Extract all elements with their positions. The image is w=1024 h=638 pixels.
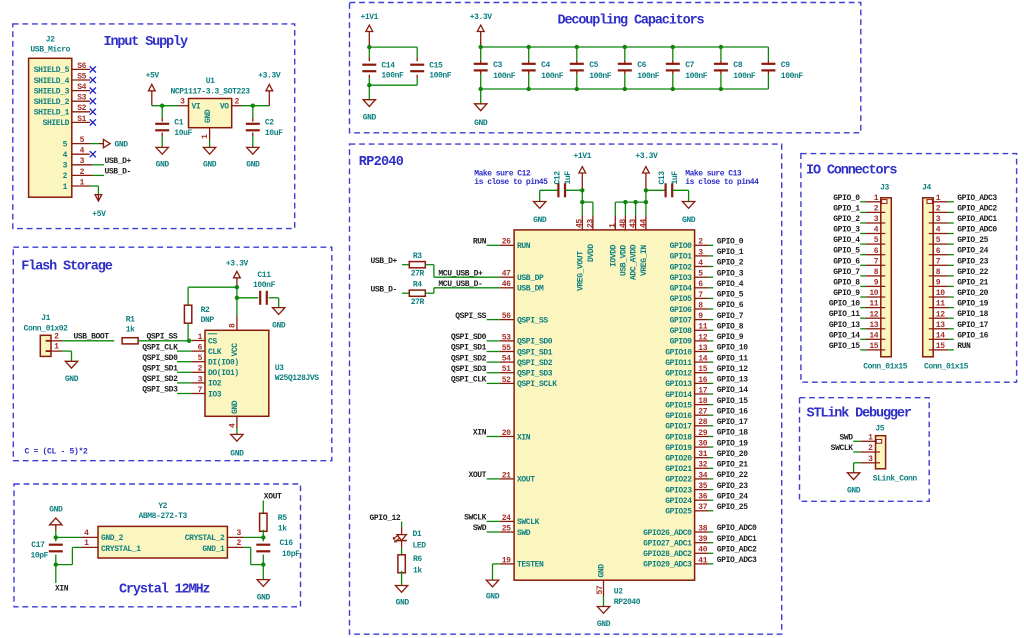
svg-text:100nF: 100nF bbox=[541, 72, 564, 81]
svg-text:3: 3 bbox=[198, 375, 203, 384]
svg-text:100nF: 100nF bbox=[685, 72, 708, 81]
svg-text:3: 3 bbox=[936, 215, 941, 224]
pin 53 QSPI_SD0 of U2 bbox=[500, 333, 553, 346]
svg-text:GPIO_ADC1: GPIO_ADC1 bbox=[957, 215, 997, 224]
wire J2 pin5 to GND bbox=[90, 143, 99, 145]
svg-text:GPIO_ADC0: GPIO_ADC0 bbox=[957, 226, 997, 235]
svg-text:+1V1: +1V1 bbox=[573, 152, 591, 161]
sheet box Decoupling Capacitors bbox=[350, 3, 861, 133]
junction on decoupling top bus bbox=[527, 45, 531, 49]
pin 1 of U1 to GND bbox=[201, 128, 210, 148]
svg-text:QSPI_SD3: QSPI_SD3 bbox=[142, 386, 178, 395]
svg-text:Decoupling Capacitors: Decoupling Capacitors bbox=[558, 14, 705, 29]
wire with net label RUN bbox=[473, 238, 500, 247]
power symbol GND above C17 bbox=[49, 506, 63, 531]
svg-text:GPIO_2: GPIO_2 bbox=[717, 259, 744, 268]
svg-text:GPIO_4: GPIO_4 bbox=[717, 280, 744, 289]
svg-text:55: 55 bbox=[502, 344, 511, 353]
svg-text:USB_DM: USB_DM bbox=[517, 285, 544, 294]
pin 27 GPIO16 of U2 with net label GPIO_16 bbox=[665, 407, 748, 421]
junction on decoupling top bus bbox=[719, 45, 723, 49]
wire TESTEN to GND bbox=[493, 564, 500, 580]
pin 57 GND of U2 bbox=[596, 564, 607, 607]
pin 1 CS of U3 bbox=[192, 333, 218, 346]
svg-text:XOUT: XOUT bbox=[468, 471, 486, 480]
junction on decoupling top bus bbox=[479, 45, 483, 49]
pin 48 USB_VDD of U2 bbox=[619, 215, 629, 276]
svg-text:RUN: RUN bbox=[473, 238, 487, 247]
svg-text:56: 56 bbox=[502, 312, 511, 321]
wire R3 to USB_DP with net label MCU_USB_D+ bbox=[425, 265, 500, 279]
connector J2 USB_Micro body bbox=[29, 58, 72, 197]
wire down to XIN label bbox=[55, 565, 57, 583]
svg-text:8: 8 bbox=[936, 268, 941, 277]
svg-text:J4: J4 bbox=[922, 183, 931, 192]
capacitor C2 bbox=[246, 106, 283, 148]
svg-text:GPIO_12: GPIO_12 bbox=[717, 365, 748, 374]
svg-text:23: 23 bbox=[586, 219, 595, 228]
svg-text:24: 24 bbox=[502, 514, 511, 523]
svg-text:48: 48 bbox=[619, 219, 628, 228]
pin 3 of J5 to GND bbox=[861, 455, 876, 464]
svg-text:S2: S2 bbox=[77, 104, 86, 113]
svg-text:5: 5 bbox=[874, 236, 879, 245]
svg-text:GPIO26_ADC0: GPIO26_ADC0 bbox=[643, 529, 692, 538]
junction at ADC_AVDD branch bbox=[633, 200, 637, 204]
svg-text:SHIELD_4: SHIELD_4 bbox=[34, 77, 70, 86]
pin 16 GPIO13 of U2 with net label GPIO_13 bbox=[665, 376, 748, 390]
pin 2 GPIO0 of U2 with net label GPIO_0 bbox=[670, 238, 744, 252]
pin 7 of J3 with net label GPIO_6 bbox=[833, 257, 885, 266]
svg-text:GPIO10: GPIO10 bbox=[665, 348, 692, 357]
svg-text:9: 9 bbox=[874, 279, 879, 288]
svg-text:GPIO6: GPIO6 bbox=[670, 306, 693, 315]
svg-text:GPIO_0: GPIO_0 bbox=[833, 194, 860, 203]
junction on decoupling top bus bbox=[623, 45, 627, 49]
svg-text:C7: C7 bbox=[685, 61, 694, 70]
svg-text:C6: C6 bbox=[637, 61, 646, 70]
svg-text:4: 4 bbox=[80, 147, 85, 156]
junction at C1 top bbox=[160, 104, 164, 108]
pin 14 GPIO11 of U2 with net label GPIO_11 bbox=[665, 354, 748, 368]
pin 1 of J4 with net label GPIO_ADC3 bbox=[933, 194, 997, 203]
svg-text:35: 35 bbox=[698, 482, 707, 491]
svg-text:GPIO_25: GPIO_25 bbox=[957, 236, 988, 245]
title Decoupling Capacitors bbox=[558, 14, 705, 29]
svg-text:GPIO16: GPIO16 bbox=[665, 412, 692, 421]
sheet box STLink Debugger bbox=[800, 398, 930, 502]
wire CRYSTAL_2 to C16 top bbox=[244, 536, 264, 538]
svg-text:J3: J3 bbox=[880, 183, 889, 192]
pin 4 of J3 with net label GPIO_3 bbox=[833, 226, 885, 235]
pin 12 of J3 with net label GPIO_11 bbox=[829, 310, 885, 319]
svg-text:100nF: 100nF bbox=[253, 281, 276, 290]
svg-text:USB_D-: USB_D- bbox=[371, 286, 397, 295]
wire with net label QSPI_SD3 bbox=[451, 365, 500, 374]
svg-text:U2: U2 bbox=[614, 587, 623, 596]
svg-text:GPIO2: GPIO2 bbox=[670, 263, 693, 272]
pin 7 IO3 of U3 bbox=[192, 386, 222, 399]
svg-text:GPIO_25: GPIO_25 bbox=[717, 503, 748, 512]
no-connect X on J2 pin S5 bbox=[90, 77, 96, 83]
svg-text:1: 1 bbox=[936, 194, 941, 203]
junction C12 at +1V1 bbox=[580, 188, 584, 192]
capacitor C1 bbox=[155, 106, 192, 148]
resistor R1 1k bbox=[122, 315, 138, 344]
svg-text:GPIO_15: GPIO_15 bbox=[717, 397, 748, 406]
svg-text:4: 4 bbox=[84, 529, 89, 538]
svg-text:W25Q128JVS: W25Q128JVS bbox=[275, 374, 320, 383]
svg-text:C15: C15 bbox=[429, 61, 443, 70]
svg-text:GPIO_24: GPIO_24 bbox=[957, 247, 988, 256]
svg-text:+5V: +5V bbox=[146, 72, 160, 81]
svg-text:DNP: DNP bbox=[201, 316, 215, 325]
wire R5 to CRYSTAL_2 junction bbox=[262, 530, 264, 538]
svg-text:57: 57 bbox=[596, 585, 605, 594]
capacitor C16 10pF bbox=[256, 537, 300, 564]
pin S4 SHIELD_3 of J2 bbox=[34, 83, 90, 96]
pin 10 of J3 with net label GPIO_9 bbox=[833, 289, 885, 298]
svg-text:GND: GND bbox=[598, 564, 607, 578]
svg-text:QSPI_SD0: QSPI_SD0 bbox=[517, 338, 553, 347]
svg-text:QSPI_SS: QSPI_SS bbox=[455, 312, 486, 321]
svg-text:CRYSTAL_2: CRYSTAL_2 bbox=[185, 534, 225, 543]
svg-text:15: 15 bbox=[869, 342, 878, 351]
label J2 value USB_Micro bbox=[30, 46, 70, 55]
pin 15 of J3 with net label GPIO_15 bbox=[829, 342, 885, 351]
svg-text:1: 1 bbox=[84, 539, 89, 548]
power symbol GND below J5 bbox=[847, 473, 861, 496]
svg-text:QSPI_CLK: QSPI_CLK bbox=[451, 376, 487, 385]
svg-text:1: 1 bbox=[54, 343, 59, 352]
pin 2 of J3 with net label GPIO_1 bbox=[833, 204, 885, 213]
svg-text:GPIO_17: GPIO_17 bbox=[717, 418, 748, 427]
pin 4 GND_2 of Y2 bbox=[82, 529, 99, 538]
svg-text:GPIO12: GPIO12 bbox=[665, 370, 692, 379]
svg-text:8: 8 bbox=[228, 323, 237, 328]
svg-text:C = (CL - 5)*2: C = (CL - 5)*2 bbox=[25, 447, 89, 456]
power symbol GND below U1 bbox=[203, 147, 217, 169]
svg-text:GND: GND bbox=[115, 140, 129, 149]
svg-text:11: 11 bbox=[936, 300, 945, 309]
wire to capacitor C11 bbox=[237, 297, 258, 299]
pin 15 GPIO12 of U2 with net label GPIO_12 bbox=[665, 365, 748, 379]
svg-text:39: 39 bbox=[698, 535, 707, 544]
pin 20 XIN of U2 bbox=[500, 429, 531, 442]
svg-text:25: 25 bbox=[502, 524, 511, 533]
svg-text:GND: GND bbox=[257, 594, 271, 603]
capacitor C17 10pF bbox=[30, 537, 62, 564]
svg-text:GPIO_21: GPIO_21 bbox=[957, 278, 988, 287]
pin 47 USB_DP of U2 bbox=[500, 270, 544, 283]
svg-text:1: 1 bbox=[874, 194, 879, 203]
wire J5 pin3 to GND bbox=[854, 463, 861, 473]
pin 15 of J4 with net label RUN bbox=[929, 342, 971, 351]
svg-text:21: 21 bbox=[502, 471, 511, 480]
svg-text:16: 16 bbox=[698, 376, 707, 385]
resistor R2 DNP pullup bbox=[184, 287, 214, 341]
svg-text:+5V: +5V bbox=[92, 210, 106, 219]
power symbol +1V1 above U2 bbox=[573, 152, 591, 190]
svg-text:6: 6 bbox=[198, 344, 203, 353]
pin 5 DI(IO0) of U3 bbox=[192, 354, 239, 367]
pin 34 GPIO22 of U2 with net label GPIO_22 bbox=[665, 471, 748, 485]
svg-text:GPIO_ADC1: GPIO_ADC1 bbox=[717, 535, 757, 544]
svg-text:D1: D1 bbox=[413, 530, 422, 539]
wire J2 pin1 to +5V bbox=[90, 186, 98, 195]
svg-text:USB_DP: USB_DP bbox=[517, 274, 544, 283]
svg-text:GPIO_6: GPIO_6 bbox=[717, 301, 744, 310]
svg-text:TESTEN: TESTEN bbox=[517, 561, 544, 570]
svg-text:GPIO21: GPIO21 bbox=[665, 465, 692, 474]
svg-text:GPIO28_ADC2: GPIO28_ADC2 bbox=[643, 550, 692, 559]
svg-text:1: 1 bbox=[868, 433, 873, 442]
wire C16 bottom to GND bbox=[262, 565, 264, 580]
svg-text:SWCLK: SWCLK bbox=[831, 444, 854, 453]
svg-text:C11: C11 bbox=[257, 271, 271, 280]
svg-text:CRYSTAL_1: CRYSTAL_1 bbox=[101, 545, 141, 554]
svg-text:GPIO9: GPIO9 bbox=[670, 338, 693, 347]
svg-text:GPIO29_ADC3: GPIO29_ADC3 bbox=[643, 561, 692, 570]
power symbol GND below C1 bbox=[156, 147, 170, 169]
svg-text:GPIO_2: GPIO_2 bbox=[833, 215, 860, 224]
svg-text:4: 4 bbox=[936, 226, 941, 235]
pin 37 GPIO25 of U2 with net label GPIO_25 bbox=[665, 503, 748, 517]
svg-text:GPIO_9: GPIO_9 bbox=[833, 289, 860, 298]
svg-text:GND: GND bbox=[486, 593, 500, 602]
pin 46 USB_DM of U2 bbox=[500, 280, 544, 293]
svg-text:1k: 1k bbox=[413, 566, 422, 575]
pin 17 GPIO14 of U2 with net label GPIO_14 bbox=[665, 386, 748, 400]
power symbol GND below U2 bbox=[597, 607, 611, 630]
MCU U2 RP2040 body bbox=[514, 230, 695, 607]
wire D1 to R6 bbox=[401, 541, 403, 557]
svg-text:XOUT: XOUT bbox=[517, 476, 535, 485]
svg-text:17: 17 bbox=[698, 386, 707, 395]
svg-text:C12: C12 bbox=[553, 171, 562, 185]
wire U1 VO to +3.3V bbox=[242, 105, 270, 107]
svg-text:VREG_IN: VREG_IN bbox=[640, 245, 649, 276]
svg-text:GPIO_5: GPIO_5 bbox=[717, 291, 744, 300]
pin 7 of J4 with net label GPIO_23 bbox=[929, 257, 989, 266]
net label XIN bbox=[55, 585, 69, 594]
junction at C17 bottom bbox=[54, 562, 58, 566]
svg-text:1k: 1k bbox=[278, 525, 287, 534]
svg-text:R5: R5 bbox=[278, 514, 287, 523]
svg-text:GPIO18: GPIO18 bbox=[665, 433, 692, 442]
wire GND to Y2 GND_2 junction bbox=[55, 531, 57, 538]
svg-text:1: 1 bbox=[80, 178, 85, 187]
svg-text:GPIO_0: GPIO_0 bbox=[717, 238, 744, 247]
svg-text:53: 53 bbox=[502, 333, 511, 342]
resistor R6 1k bbox=[398, 555, 423, 576]
no-connect X on J2 pin S4 bbox=[90, 88, 96, 94]
pin 31 GPIO20 of U2 with net label GPIO_20 bbox=[665, 450, 748, 464]
svg-text:8: 8 bbox=[698, 301, 703, 310]
power symbol GND right of C11 bbox=[272, 308, 286, 331]
svg-text:19: 19 bbox=[502, 556, 511, 565]
svg-text:9: 9 bbox=[936, 279, 941, 288]
sheet box RP2040 bbox=[350, 144, 782, 634]
svg-text:XIN: XIN bbox=[55, 585, 69, 594]
wire with net label QSPI_SD3 bbox=[142, 386, 191, 395]
svg-text:R4: R4 bbox=[413, 281, 422, 290]
svg-text:27R: 27R bbox=[411, 269, 425, 278]
svg-text:6: 6 bbox=[936, 247, 941, 256]
wire and net label USB_D- at J2 pin2 bbox=[92, 168, 131, 177]
no-connect X on J2 pin S3 bbox=[90, 98, 96, 104]
svg-text:GPIO_10: GPIO_10 bbox=[829, 300, 860, 309]
svg-text:RUN: RUN bbox=[517, 242, 531, 251]
svg-text:SWD: SWD bbox=[839, 433, 853, 442]
pin 44 VREG_IN of U2 bbox=[639, 215, 649, 276]
power symbol GND below C3 bbox=[474, 104, 488, 128]
svg-text:14: 14 bbox=[869, 331, 878, 340]
svg-text:GPIO_24: GPIO_24 bbox=[717, 492, 748, 501]
pin 30 GPIO19 of U2 with net label GPIO_19 bbox=[665, 439, 748, 453]
svg-text:GPIO23: GPIO23 bbox=[665, 486, 692, 495]
svg-text:QSPI_SD3: QSPI_SD3 bbox=[517, 370, 553, 379]
svg-text:SHIELD_3: SHIELD_3 bbox=[34, 87, 70, 96]
svg-text:GPIO_13: GPIO_13 bbox=[829, 321, 860, 330]
svg-text:CLK: CLK bbox=[208, 348, 222, 357]
pin 43 ADC_AVDD of U2 bbox=[629, 215, 639, 280]
svg-text:CS: CS bbox=[208, 337, 217, 346]
svg-text:DVDD: DVDD bbox=[587, 244, 596, 262]
junction C13 at +3.3V bbox=[644, 188, 648, 192]
svg-text:QSPI_SD0: QSPI_SD0 bbox=[451, 333, 487, 342]
pin 3 of J2 bbox=[63, 157, 93, 170]
svg-text:GPIO_11: GPIO_11 bbox=[717, 354, 748, 363]
wire with net label SWCLK bbox=[464, 514, 500, 523]
capacitor C9 100nF bbox=[761, 47, 803, 89]
pin 36 GPIO24 of U2 with net label GPIO_24 bbox=[665, 492, 748, 506]
svg-text:GPIO_16: GPIO_16 bbox=[717, 407, 748, 416]
junction on decoupling bottom bus bbox=[671, 87, 675, 91]
svg-text:GPIO27_ADC1: GPIO27_ADC1 bbox=[643, 540, 692, 549]
svg-text:4: 4 bbox=[874, 226, 879, 235]
power symbol GND below R6 bbox=[395, 586, 409, 608]
pin 51 QSPI_SD3 of U2 bbox=[500, 365, 553, 378]
power symbol GND at TESTEN bbox=[486, 580, 500, 601]
svg-text:46: 46 bbox=[502, 280, 511, 289]
svg-text:10pF: 10pF bbox=[282, 550, 300, 559]
svg-text:GPIO_13: GPIO_13 bbox=[717, 376, 748, 385]
sheet box IO Connectors bbox=[801, 154, 1017, 383]
svg-text:GPIO7: GPIO7 bbox=[670, 316, 693, 325]
svg-text:GND: GND bbox=[597, 620, 611, 629]
svg-text:MCU_USB_D+: MCU_USB_D+ bbox=[438, 269, 483, 278]
pin 7 GPIO5 of U2 with net label GPIO_5 bbox=[670, 291, 744, 305]
svg-text:100nF: 100nF bbox=[589, 72, 612, 81]
svg-text:29: 29 bbox=[698, 429, 707, 438]
junction at R2 top wire bbox=[235, 285, 239, 289]
svg-text:10: 10 bbox=[936, 289, 945, 298]
pin 2 of J1 bbox=[51, 332, 62, 341]
LED D1 bbox=[393, 530, 427, 551]
svg-text:QSPI_SD2: QSPI_SD2 bbox=[517, 359, 553, 368]
svg-text:USB_BOOT: USB_BOOT bbox=[74, 333, 110, 342]
net label USB_D- wire to R4 bbox=[371, 286, 410, 295]
flash U3 W25Q128JVS body bbox=[205, 330, 319, 416]
power symbol +3.3V at U1 output bbox=[258, 72, 281, 106]
connector J3 Conn_01x15 body bbox=[863, 183, 908, 371]
svg-text:GPIO_8: GPIO_8 bbox=[833, 278, 860, 287]
svg-text:6: 6 bbox=[874, 247, 879, 256]
pin 1 of J5 with net label SWD bbox=[839, 433, 875, 442]
svg-text:GND: GND bbox=[231, 400, 240, 414]
crystal Y2 ABM8-272-T3 body bbox=[98, 502, 227, 558]
svg-text:GPIO13: GPIO13 bbox=[665, 380, 692, 389]
wire and net label USB_D+ at J2 pin3 bbox=[92, 157, 131, 166]
no-connect X on J2 pin S1 bbox=[90, 119, 96, 125]
pin 3 CRYSTAL_2 of Y2 bbox=[227, 529, 243, 538]
svg-text:GPIO_ADC3: GPIO_ADC3 bbox=[717, 556, 757, 565]
svg-text:IO Connectors: IO Connectors bbox=[806, 164, 897, 179]
capacitor C11 100nF bbox=[253, 271, 279, 308]
no-connect X on J2 pin S6 bbox=[90, 66, 96, 72]
svg-text:44: 44 bbox=[639, 219, 648, 228]
svg-text:37: 37 bbox=[698, 503, 707, 512]
pin 5 GPIO3 of U2 with net label GPIO_3 bbox=[670, 269, 744, 283]
power symbol GND right of C13 bbox=[682, 190, 696, 225]
svg-text:GPIO_14: GPIO_14 bbox=[829, 331, 860, 340]
pin 6 of J4 with net label GPIO_24 bbox=[929, 247, 989, 256]
wire C14 bottom to GND bbox=[368, 85, 370, 100]
power symbol +3.3V above U3 bbox=[226, 260, 249, 288]
svg-text:GPIO_11: GPIO_11 bbox=[829, 310, 860, 319]
svg-text:GPIO_20: GPIO_20 bbox=[717, 450, 748, 459]
pin 12 of J4 with net label GPIO_18 bbox=[929, 310, 989, 319]
svg-text:31: 31 bbox=[698, 450, 707, 459]
svg-text:GND: GND bbox=[246, 160, 260, 169]
svg-text:C14: C14 bbox=[381, 61, 395, 70]
svg-text:2: 2 bbox=[698, 238, 703, 247]
svg-text:GPIO_19: GPIO_19 bbox=[957, 300, 988, 309]
svg-text:C16: C16 bbox=[280, 539, 294, 548]
power symbol GND below U3 bbox=[230, 434, 244, 458]
svg-text:STLink Debugger: STLink Debugger bbox=[807, 407, 912, 422]
pin 4 GND of U3 bbox=[228, 400, 240, 434]
pin 4 of J4 with net label GPIO_ADC0 bbox=[929, 226, 998, 235]
svg-text:1: 1 bbox=[609, 223, 618, 228]
svg-text:51: 51 bbox=[502, 365, 511, 374]
svg-text:GPIO_8: GPIO_8 bbox=[717, 323, 744, 332]
pin 2 DO(IO1) of U3 bbox=[192, 365, 239, 378]
svg-text:QSPI_SD2: QSPI_SD2 bbox=[142, 375, 178, 384]
junction at C2 top bbox=[251, 104, 255, 108]
svg-text:QSPI_SS: QSPI_SS bbox=[517, 316, 548, 325]
svg-text:GPIO_ADC3: GPIO_ADC3 bbox=[957, 194, 997, 203]
junction at USB_VDD branch bbox=[623, 200, 627, 204]
svg-text:4: 4 bbox=[63, 151, 68, 160]
wire with net label XIN bbox=[473, 429, 500, 438]
svg-text:GPIO_3: GPIO_3 bbox=[833, 226, 860, 235]
wire with net label QSPI_SD1 bbox=[451, 344, 500, 353]
svg-text:VI: VI bbox=[192, 103, 201, 112]
svg-text:GPIO_ADC0: GPIO_ADC0 bbox=[717, 524, 757, 533]
net label GPIO_12 bbox=[370, 514, 401, 523]
svg-text:C13: C13 bbox=[658, 171, 667, 185]
svg-text:GPIO_9: GPIO_9 bbox=[717, 333, 744, 342]
svg-text:XIN: XIN bbox=[517, 433, 531, 442]
wire with net label SWD bbox=[473, 524, 500, 533]
pin 35 GPIO23 of U2 with net label GPIO_23 bbox=[665, 482, 748, 496]
pin 56 QSPI_SS of U2 bbox=[500, 312, 549, 325]
svg-text:3: 3 bbox=[237, 529, 242, 538]
svg-text:GPIO_22: GPIO_22 bbox=[957, 268, 988, 277]
svg-text:54: 54 bbox=[502, 355, 511, 364]
